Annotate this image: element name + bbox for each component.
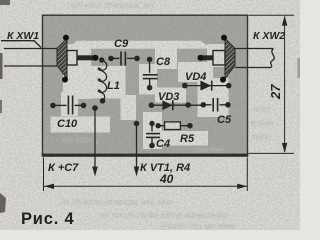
- svg-text:L1: L1: [107, 80, 120, 92]
- svg-text:VD4: VD4: [185, 71, 206, 83]
- svg-text:етлн: етлн: [251, 118, 273, 128]
- svg-text:С8: С8: [156, 56, 171, 68]
- svg-text:С9: С9: [114, 38, 129, 50]
- svg-text:С4: С4: [156, 138, 170, 150]
- svg-text:VD3: VD3: [158, 91, 179, 103]
- svg-text:Рис. 4: Рис. 4: [21, 210, 74, 228]
- svg-text:нтп: нтп: [253, 104, 270, 114]
- svg-text:лп тикте опаскре нес пчи: лп тикте опаскре нес пчи: [59, 197, 172, 207]
- svg-text:пке нти: пке нти: [196, 145, 223, 154]
- svg-text:R5: R5: [180, 133, 195, 145]
- svg-text:К XW2: К XW2: [253, 30, 285, 42]
- svg-text:НЧ ЕВН ь: НЧ ЕВН ь: [62, 136, 98, 145]
- svg-text:27: 27: [268, 84, 283, 100]
- svg-text:нпист пш ме ток: нпист пш ме ток: [160, 221, 235, 230]
- svg-text:шп ктл тчпранс нл: шп ктл тчпранс нл: [70, 0, 153, 10]
- svg-text:С10: С10: [57, 118, 78, 130]
- svg-text:К XW1: К XW1: [7, 30, 39, 42]
- svg-text:клпс: клпс: [252, 132, 271, 142]
- svg-text:ек лтип снлю клте мрагтнер: ек лтип снлю клте мрагтнер: [100, 210, 228, 220]
- svg-text:К +С7: К +С7: [48, 162, 79, 174]
- svg-text:40: 40: [159, 172, 174, 186]
- svg-text:С5: С5: [217, 114, 232, 126]
